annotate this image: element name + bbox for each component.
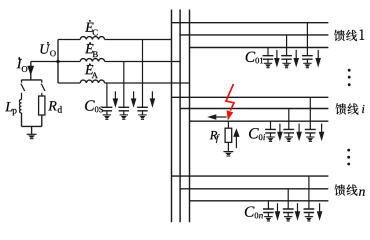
capacitor C01 c to ground xyxy=(302,23,313,68)
source E_C: wire and winding xyxy=(58,37,172,40)
capacitive current arrow 1 of source group xyxy=(113,91,119,108)
capacitor C0i c to ground xyxy=(305,97,316,141)
label feeder 1 (CJK kui-xian 1) xyxy=(334,29,364,41)
capacitive current arrow 3 of feeder n xyxy=(317,203,323,221)
label feeder i (CJK kui-xian i) xyxy=(336,103,359,114)
wire: Lp bottom to bottom bar xyxy=(21,113,23,126)
capacitor C0S c to ground xyxy=(137,40,148,120)
label E_A xyxy=(85,63,98,78)
capacitive current arrow 1 of feeder i xyxy=(277,124,283,142)
switch on Lp branch xyxy=(21,80,25,100)
inductor Lp (arc suppression coil) xyxy=(19,100,21,113)
capacitive current arrow 1 of feeder 1 xyxy=(274,50,280,68)
capacitor C0i b to ground xyxy=(283,109,294,142)
wire: top bar of Lp/Rd parallel branch xyxy=(22,79,42,81)
feeder i line a xyxy=(172,96,329,98)
busbar A vertical xyxy=(171,10,173,223)
capacitor C0i a to ground xyxy=(265,121,276,141)
capacitive current arrow 2 of source group xyxy=(131,91,137,108)
capacitive current arrow 3 of feeder i xyxy=(319,124,325,142)
wire: tail to ground xyxy=(31,126,33,134)
resistor Rf (fault resistance) xyxy=(225,128,232,142)
label C_0i xyxy=(249,128,265,140)
ellipsis dots between feeder i and feeder n xyxy=(347,149,350,166)
ground under Rf xyxy=(224,152,234,156)
capacitor C0S b to ground xyxy=(118,62,129,120)
label C_0S xyxy=(85,100,103,112)
feeder n line b xyxy=(180,188,328,190)
wire: source left bus vertical xyxy=(57,40,59,84)
label feeder n (CJK kui-xian n) xyxy=(335,184,358,195)
switch on Rd branch xyxy=(41,80,45,96)
capacitor C0n a to ground xyxy=(263,201,274,221)
arrow: current beside Rf (up) xyxy=(233,128,239,148)
feeder i line c xyxy=(190,120,329,122)
capacitive current arrow 2 of feeder n xyxy=(295,203,301,221)
capacitor C0S a to ground xyxy=(102,83,113,119)
ellipsis dots between feeder 1 and feeder i xyxy=(348,69,351,86)
label I_O xyxy=(17,57,28,72)
feeder i line b xyxy=(180,108,328,110)
wire: fault drop from feeder i line c xyxy=(227,121,229,128)
fault lightning bolt (red) xyxy=(226,84,234,121)
ground under Lp/Rd xyxy=(27,134,37,138)
wire: neutral horizontal U_O line xyxy=(31,61,58,63)
capacitive current arrow 3 of feeder 1 xyxy=(315,50,321,68)
capacitor C0n c to ground xyxy=(304,176,315,221)
capacitive current arrow 3 of source group xyxy=(150,91,156,108)
capacitor C01 a to ground xyxy=(263,48,274,68)
source E_B: wire and winding xyxy=(58,59,180,62)
capacitive current arrow 1 of feeder n xyxy=(275,203,281,221)
capacitive current arrow 2 of feeder 1 xyxy=(293,50,299,68)
label E_B xyxy=(85,42,98,57)
label L_p xyxy=(5,102,16,115)
label R_f xyxy=(210,131,220,143)
capacitor C0n b to ground xyxy=(283,189,294,221)
busbar B vertical xyxy=(179,10,181,223)
wire: Rd bottom to bottom bar xyxy=(41,115,43,126)
wire: bottom bar of Lp/Rd parallel branch xyxy=(22,125,42,127)
arrow: I_O current (down) xyxy=(27,66,34,76)
capacitor C01 b to ground xyxy=(281,35,292,68)
busbar C vertical xyxy=(189,10,191,223)
feeder n line a xyxy=(172,175,329,177)
label R_d xyxy=(48,101,62,112)
resistor Rd (box) xyxy=(39,96,45,115)
feeder 1 line b xyxy=(180,34,328,36)
label C_01 xyxy=(246,52,263,64)
wire: I_O drop from neutral to Lp/Rd group xyxy=(30,62,32,80)
capacitive current arrow 2 of feeder i xyxy=(296,124,302,142)
feeder n line c xyxy=(190,200,329,202)
wire: Rf to ground xyxy=(227,142,229,151)
label C_0n xyxy=(245,206,263,218)
label U_O xyxy=(40,42,55,56)
feeder 1 line c xyxy=(190,47,329,49)
arrow: fault current to bus (left) on feeder i xyxy=(207,114,226,120)
node: U_O neutral junction dot xyxy=(56,60,59,63)
source E_A: wire and winding xyxy=(58,80,190,83)
label E_C xyxy=(85,20,98,35)
feeder 1 line a xyxy=(172,22,329,24)
